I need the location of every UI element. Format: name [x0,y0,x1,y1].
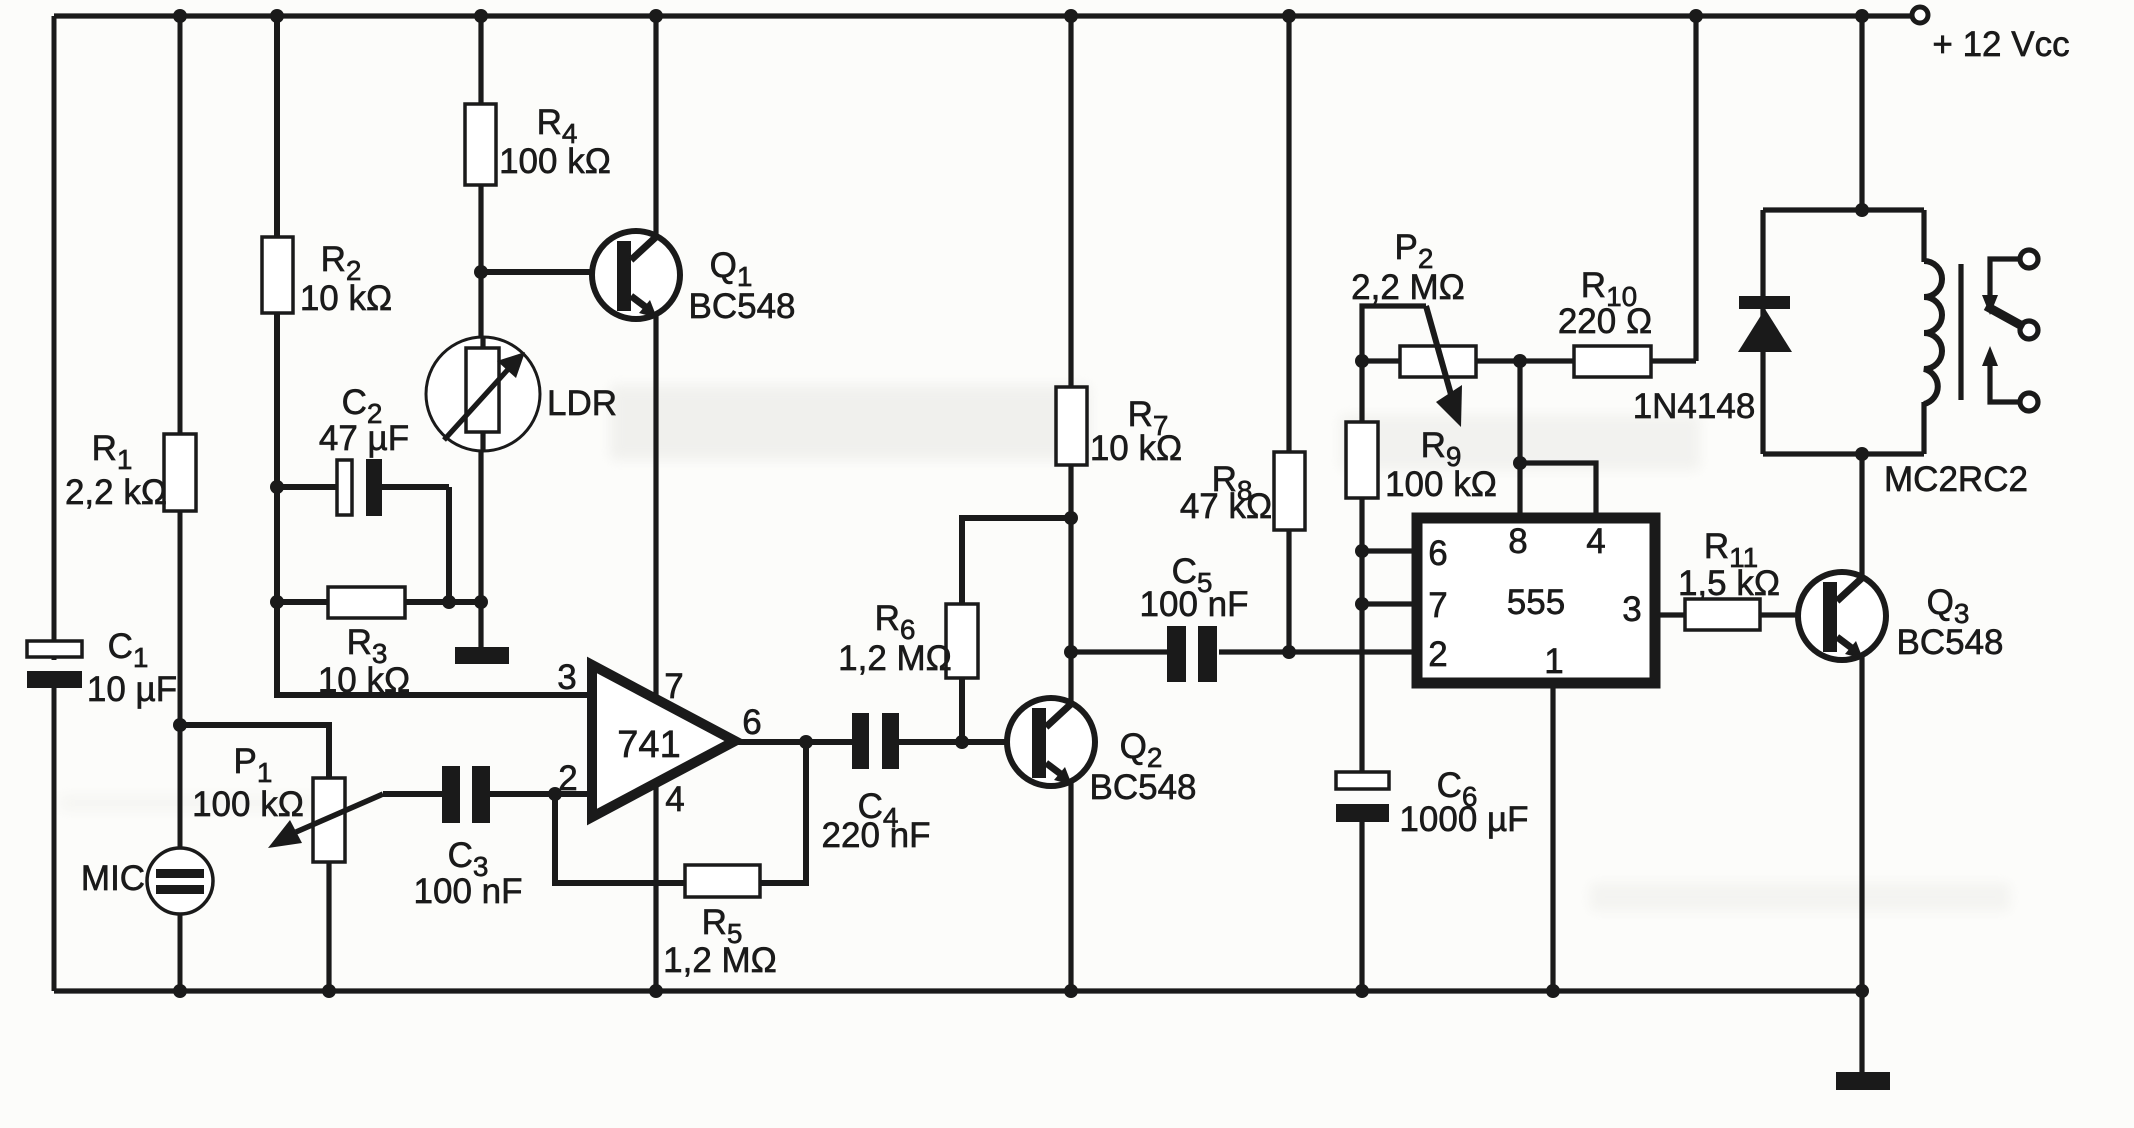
wire R1/MIC column [178,16,183,991]
wire relay bottom [1763,451,1924,456]
wire C2 to R3 drop [446,487,452,602]
svg-text:1: 1 [1544,642,1563,681]
svg-text:1000 µF: 1000 µF [1399,800,1528,839]
svg-text:100 kΩ: 100 kΩ [192,785,304,824]
transistor Q1 BC548 [592,231,796,326]
svg-text:3: 3 [557,658,576,697]
svg-text:1N4148: 1N4148 [1633,387,1756,426]
relay NO contact arm [1982,346,2020,402]
potentiometer P1 [192,742,383,862]
svg-text:6: 6 [1428,534,1447,573]
relay MC2RC2 coil [1884,210,2028,499]
microphone MIC [81,848,213,914]
svg-text:7: 7 [1428,586,1447,625]
wire relay feed from rail [1859,16,1864,210]
svg-text:1,5 kΩ: 1,5 kΩ [1678,564,1780,603]
wire 555 pin 7 stub [1362,601,1417,606]
wire 555 pin 4 supply [1520,463,1596,520]
capacitor C4 [822,713,931,855]
wire 555 pin 1 to ground [1550,684,1555,991]
svg-text:100 kΩ: 100 kΩ [499,142,611,181]
IC 555 [1417,518,1655,683]
svg-text:2,2 MΩ: 2,2 MΩ [1351,268,1465,307]
wire feedback pin2 to R5 [555,742,806,883]
svg-text:MIC: MIC [81,859,145,898]
wire P1 column [326,778,331,991]
LDR [426,337,617,451]
svg-text:8: 8 [1508,522,1527,561]
svg-text:7: 7 [664,667,683,706]
svg-text:+ 12 Vcc: + 12 Vcc [1932,25,2069,64]
svg-text:47 kΩ: 47 kΩ [1180,487,1272,526]
svg-text:BC548: BC548 [1896,623,2003,662]
wire R2 column to op-amp pin 3 [277,16,590,695]
svg-text:3: 3 [1622,590,1641,629]
resistor R9 [1346,422,1378,498]
wire R7/Q2 column [1068,16,1073,991]
potentiometer P2 [1351,228,1476,427]
svg-text:BC548: BC548 [1089,768,1196,807]
svg-text:10 kΩ: 10 kΩ [1090,429,1182,468]
wire 555 pin 3 to R11 [1655,612,1826,617]
svg-text:BC548: BC548 [688,287,795,326]
svg-text:100 nF: 100 nF [1140,585,1249,624]
op-amp U1 741 [557,658,761,819]
resistor R3 [328,587,405,618]
wire Q1 collector-emitter column through 741 supply pins [653,16,658,991]
wire C5 to 555 pin 2 [1219,649,1417,654]
svg-text:6: 6 [742,703,761,742]
svg-text:47 µF: 47 µF [319,419,409,458]
wire Q1 base [481,269,620,275]
resistor R7 [1056,387,1087,465]
capacitor C3 [414,766,523,911]
relay switch blade [1986,306,2024,327]
wire 555 pin 6 stub [1362,548,1417,553]
svg-text:2,2 kΩ: 2,2 kΩ [65,473,167,512]
svg-text:220 nF: 220 nF [822,816,931,855]
capacitor C6 [1335,766,1529,839]
wire C6 to ground rail [1359,820,1364,991]
wire P1 wiper to C3 [383,791,443,797]
svg-text:741: 741 [617,724,680,766]
svg-text:MC2RC2: MC2RC2 [1884,460,2028,499]
svg-text:10 kΩ: 10 kΩ [300,279,392,318]
svg-text:2: 2 [1428,635,1447,674]
wire R8 column [1286,16,1291,652]
capacitor C5 [1140,552,1249,682]
wire Q3 emitter ground stub [1859,991,1864,1074]
wire R10 riser to rail [1693,16,1698,361]
transistor Q3 BC548 [1798,572,2004,662]
ground under Q3 [1836,1072,1890,1090]
transistor Q2 BC548 [1007,698,1197,807]
resistor R2 [262,237,293,313]
svg-text:555: 555 [1507,583,1565,622]
svg-text:4: 4 [665,780,684,819]
wire left border [52,16,57,991]
wire C3 to op-amp pin 2 [489,791,592,797]
ground under LDR [455,647,509,664]
wire R7 to R6 branch [962,518,1071,742]
wire P2 R10 branch [1362,358,1696,363]
svg-text:100 nF: 100 nF [414,872,523,911]
relay contact terminals [2020,250,2038,411]
svg-text:10 kΩ: 10 kΩ [318,661,410,700]
wire relay top [1763,207,1924,212]
relay NC contact arm [1982,259,2020,315]
resistor R1 [164,434,196,511]
resistor R6 [946,604,978,678]
wire C2 branch [277,484,449,490]
svg-text:220 Ω: 220 Ω [1558,302,1652,341]
wire top +12V rail [54,13,1912,18]
wire R4/LDR column [478,16,483,650]
svg-text:LDR: LDR [547,384,617,423]
wire bottom ground rail [54,988,1862,993]
wire C4 to Q2 base [898,739,1037,745]
wire P1 top branch [180,725,329,778]
wire 555 pin 8 supply [1517,361,1522,520]
svg-text:4: 4 [1586,522,1605,561]
wire op-amp pin 6 output [735,739,852,745]
capacitor C2 [319,383,409,516]
svg-text:100 kΩ: 100 kΩ [1385,465,1497,504]
resistor R8 [1274,452,1305,530]
resistor R5 [685,865,760,897]
svg-text:10 µF: 10 µF [87,670,177,709]
wire Q2 collector to C5 branch [1071,649,1168,654]
resistor R11 [1685,599,1760,630]
diode 1N4148 [1633,296,1792,426]
wire diode branch [1760,210,1765,454]
capacitor C1 [26,627,177,709]
node +12Vcc terminal [1912,7,2070,64]
svg-text:2: 2 [558,759,577,798]
wire Q3 collector-emitter column [1859,454,1864,991]
wire R9 column [1359,361,1364,776]
svg-text:1,2 MΩ: 1,2 MΩ [663,941,777,980]
wire R3 branch [277,599,481,605]
resistor R10 [1574,346,1651,377]
svg-text:1,2 MΩ: 1,2 MΩ [838,639,952,678]
resistor R4 [465,104,496,185]
